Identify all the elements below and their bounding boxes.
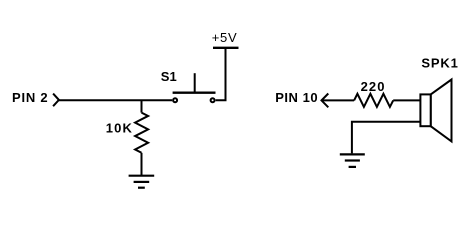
wire resistor 220 to speaker SPK1	[393, 99, 420, 101]
svg-text:+5V: +5V	[212, 30, 238, 45]
power rail +5V bar	[213, 47, 239, 49]
resistor 10K	[135, 113, 148, 153]
svg-text:PIN 10: PIN 10	[275, 90, 318, 105]
junction node at resistor R1 top	[141, 100, 143, 112]
resistor 220	[354, 94, 393, 107]
switch S1 (pushbutton, normally open)	[173, 73, 216, 102]
wire resistor 10K to ground	[141, 153, 143, 175]
svg-text:SPK1: SPK1	[421, 56, 458, 71]
svg-text:S1: S1	[161, 69, 177, 84]
value label 10K	[106, 121, 133, 136]
speaker SPK1	[420, 80, 451, 142]
wire PIN 10 arrow to resistor 220	[322, 99, 355, 101]
pin label PIN 2	[12, 90, 48, 105]
ground (left)	[129, 176, 155, 188]
designator SPK1	[421, 56, 458, 71]
pin label PIN 10	[275, 90, 318, 105]
svg-text:PIN 2: PIN 2	[12, 90, 48, 105]
power label +5V	[212, 30, 238, 45]
ground (right)	[340, 154, 365, 167]
designator S1	[161, 69, 177, 84]
svg-text:220: 220	[361, 79, 386, 94]
wire speaker SPK1 bottom terminal to ground	[352, 122, 421, 154]
value label 220	[361, 79, 386, 94]
node PIN 10 arrowhead	[322, 94, 329, 108]
node PIN 2 chevron connector	[53, 94, 59, 107]
wire switch S1 right terminal to +5V rail	[216, 49, 226, 100]
svg-text:10K: 10K	[106, 121, 133, 136]
wire PIN 2 to switch S1 left terminal	[59, 99, 172, 101]
